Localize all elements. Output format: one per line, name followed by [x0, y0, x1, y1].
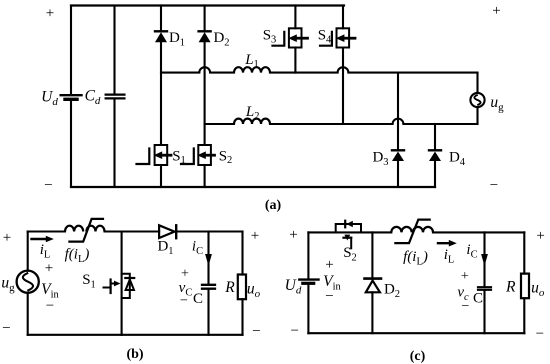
svg-text:f(iL): f(iL)	[403, 249, 428, 268]
mosfet S2	[198, 145, 211, 165]
svg-text:−: −	[290, 323, 298, 339]
ac source ug	[470, 93, 484, 107]
mosfet S2 (c)	[336, 224, 361, 232]
svg-text:S4: S4	[318, 28, 332, 46]
svg-text:+: +	[251, 228, 259, 244]
ac source ug (b)	[17, 271, 39, 293]
diode D2 (c)	[365, 277, 382, 280]
svg-text:Cd: Cd	[85, 88, 101, 108]
battery Ud long plate	[61, 94, 82, 96]
wire D3 branch	[397, 73, 399, 150]
wire bottom rail (a)	[71, 186, 435, 188]
svg-text:D2: D2	[213, 30, 229, 49]
wire S2 source	[204, 165, 206, 187]
inductor L1	[234, 67, 270, 72]
wire upper node left (a)	[161, 72, 199, 74]
svg-text:−: −	[180, 294, 188, 309]
diode D4	[429, 149, 441, 151]
svg-text:iL: iL	[40, 242, 51, 261]
mosfet S3	[289, 28, 302, 47]
svg-text:+: +	[289, 227, 297, 243]
svg-text:+: +	[45, 261, 53, 277]
wire upper node mid (a)	[210, 72, 234, 74]
battery Ud short plate (c)	[303, 282, 314, 285]
svg-text:−: −	[490, 178, 498, 194]
wire D2 branch (c)	[371, 232, 373, 277]
wire S1 branch (b)	[121, 232, 123, 335]
svg-text:−: −	[252, 324, 260, 340]
svg-text:D3: D3	[372, 150, 388, 169]
current arrow iC (b)	[205, 254, 212, 266]
svg-text:D2: D2	[384, 282, 400, 301]
wire top rail (a)	[71, 4, 344, 6]
hop over D2 line	[199, 67, 210, 72]
svg-text:(a): (a)	[265, 198, 282, 213]
wire cap branch (c)	[483, 232, 485, 286]
svg-text:−: −	[2, 321, 10, 337]
capacitor Cd	[106, 95, 125, 99]
svg-text:−: −	[325, 289, 333, 305]
wire S3 drain	[294, 6, 296, 29]
mosfet S4	[337, 28, 350, 47]
svg-text:−: −	[44, 178, 52, 194]
battery Ud long plate (c)	[299, 278, 318, 280]
svg-text:uo: uo	[247, 281, 261, 301]
svg-text:+: +	[536, 228, 544, 244]
wire upper node right (a)	[270, 72, 338, 74]
svg-text:+: +	[46, 6, 54, 22]
mosfet S1 (b)	[122, 274, 130, 298]
capacitor C (b)	[202, 285, 215, 289]
svg-text:f(iL): f(iL)	[65, 247, 90, 266]
wire right rail (b)	[241, 232, 243, 275]
svg-text:S2: S2	[343, 245, 357, 264]
wire D1 branch	[160, 6, 162, 32]
svg-text:ug: ug	[1, 275, 15, 295]
wire ug branch bottom	[476, 107, 478, 124]
svg-text:S1: S1	[82, 272, 96, 291]
svg-text:D1: D1	[157, 239, 173, 258]
wire left rail (a)	[70, 6, 72, 95]
wire left rail (c)	[307, 232, 309, 278]
wire bottom rail (c)	[308, 332, 524, 334]
saturation slash (c)	[395, 220, 429, 244]
svg-text:S3: S3	[263, 28, 277, 46]
svg-text:R: R	[224, 279, 235, 296]
wire ug branch top	[476, 73, 478, 93]
svg-text:+: +	[492, 3, 500, 19]
svg-text:ug: ug	[490, 94, 504, 114]
wire bottom rail (b)	[28, 334, 243, 336]
svg-text:Ud: Ud	[41, 89, 58, 109]
resistor R (c)	[521, 274, 529, 299]
current arrow iC (c)	[481, 254, 488, 266]
diode D1	[155, 30, 167, 32]
svg-text:D4: D4	[449, 150, 466, 169]
wire left rail (b)	[27, 232, 29, 271]
battery Ud short plate	[65, 98, 77, 101]
svg-text:iC: iC	[466, 242, 477, 261]
svg-text:+: +	[461, 269, 469, 284]
wire S1 source	[160, 165, 162, 187]
svg-text:uo: uo	[531, 280, 545, 300]
current arrow iL (b)	[32, 238, 47, 240]
hop over S4 line	[338, 67, 349, 72]
wire S3 source	[294, 48, 296, 73]
inductor L2	[234, 119, 270, 124]
wire S4 drain	[342, 6, 344, 29]
wire top (b)	[28, 230, 65, 232]
hop over D3 line	[393, 119, 404, 124]
diode D2	[199, 30, 211, 32]
current arrow iL (c)	[438, 242, 449, 244]
svg-text:L2: L2	[245, 104, 260, 122]
svg-text:S2: S2	[219, 149, 233, 167]
svg-text:−: −	[462, 299, 470, 314]
svg-text:−: −	[46, 298, 54, 314]
wire S4 source	[342, 48, 344, 125]
wire cap branch (b)	[207, 232, 209, 284]
svg-text:R: R	[505, 279, 516, 296]
wire lower node right (a)	[403, 123, 477, 125]
svg-text:iC: iC	[192, 239, 203, 258]
svg-text:+: +	[325, 257, 333, 273]
wire Cd rail (a)	[113, 6, 115, 94]
wire D2 branch	[204, 6, 206, 32]
wire upper node far right (a)	[348, 72, 477, 74]
svg-text:C: C	[193, 291, 203, 307]
diode D1 (b)	[159, 225, 174, 238]
wire lower node mid (a)	[270, 123, 393, 125]
wire top (c)	[308, 231, 391, 233]
capacitor C (c)	[478, 287, 491, 290]
saturation slash (b)	[69, 219, 103, 242]
svg-text:iL: iL	[444, 247, 455, 266]
mosfet S1	[155, 145, 168, 165]
resistor R (b)	[238, 275, 246, 300]
svg-text:D1: D1	[169, 30, 185, 49]
svg-text:(c): (c)	[410, 349, 426, 364]
wire D4 branch	[434, 124, 436, 150]
svg-text:C: C	[473, 291, 483, 307]
svg-text:+: +	[3, 230, 11, 246]
inductor f(iL) (b)	[65, 226, 83, 232]
inductor f(iL) (c)	[391, 227, 411, 233]
svg-text:L1: L1	[244, 52, 259, 70]
svg-text:−: −	[536, 326, 544, 342]
wire right rail (c)	[523, 232, 525, 273]
svg-text:(b): (b)	[126, 347, 143, 362]
diode D3	[392, 149, 404, 151]
wire lower node left (a)	[205, 123, 234, 125]
